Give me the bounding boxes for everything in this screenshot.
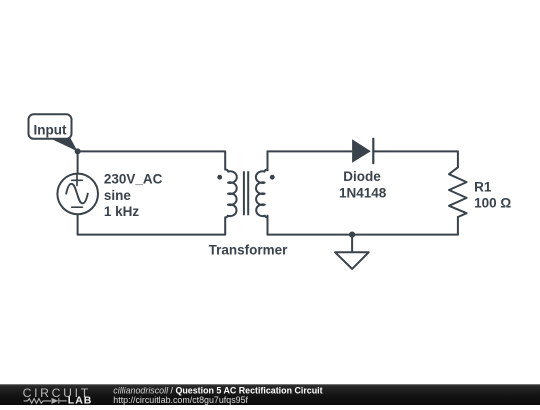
- wire secondary top right of diode: [373, 150, 458, 152]
- svg-text:LAB: LAB: [68, 395, 93, 405]
- svg-text:Transformer: Transformer: [209, 243, 289, 258]
- wire secondary bottom: [268, 234, 458, 236]
- wire primary bottom: [78, 234, 226, 236]
- voltage source V1 plus sign: [72, 175, 83, 185]
- transformer T1 primary phase dot: [217, 175, 222, 180]
- wire secondary top left stub: [268, 151, 353, 171]
- ground node junction dot: [349, 232, 355, 238]
- transformer T1 secondary phase dot: [270, 175, 275, 180]
- input label callout box: [29, 114, 72, 139]
- ground symbol stem: [351, 235, 353, 253]
- diode D1 triangle: [352, 139, 371, 163]
- voltage source V1 circle: [57, 174, 98, 215]
- input label callout tail: [52, 138, 78, 151]
- svg-text:cillianodriscoll / Question 5: cillianodriscoll / Question 5 AC Rectifi…: [113, 385, 322, 395]
- svg-text:230V_AC: 230V_AC: [104, 172, 163, 187]
- diode D1 cathode bar: [372, 139, 374, 164]
- svg-text:100 Ω: 100 Ω: [474, 196, 511, 211]
- ground symbol triangle: [335, 252, 369, 269]
- resistor R1 zigzag: [449, 167, 467, 217]
- wire primary top: [78, 150, 226, 152]
- svg-text:1 kHz: 1 kHz: [104, 204, 140, 219]
- wire secondary right lower: [457, 217, 459, 235]
- wire primary left lower: [77, 214, 79, 234]
- svg-text:http://circuitlab.com/ct8gu7uf: http://circuitlab.com/ct8gu7ufqs95f: [113, 395, 248, 405]
- voltage source V1 sine wave: [66, 184, 88, 204]
- node Input junction dot: [75, 148, 81, 154]
- transformer T1 core lines: [244, 171, 248, 215]
- svg-text:R1: R1: [474, 179, 492, 194]
- wire secondary bottom left stub: [267, 216, 269, 235]
- logo wire with resistor and diode: [24, 398, 67, 403]
- transformer T1 primary winding: [225, 151, 237, 234]
- svg-text:sine: sine: [104, 188, 132, 203]
- voltage source V1 minus sign: [72, 206, 83, 208]
- logo diode triangle: [52, 398, 59, 404]
- svg-text:Input: Input: [34, 123, 67, 138]
- wire primary left upper: [77, 151, 79, 173]
- svg-text:1N4148: 1N4148: [339, 186, 387, 201]
- wire secondary right upper: [457, 151, 459, 167]
- svg-text:Diode: Diode: [343, 169, 381, 184]
- transformer T1 secondary winding: [256, 151, 268, 234]
